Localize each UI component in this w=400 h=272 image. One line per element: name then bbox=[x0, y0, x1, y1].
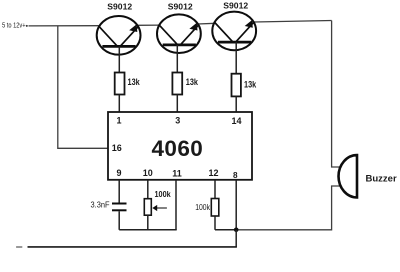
node minus terminal bbox=[16, 246, 22, 248]
pin 3 label bbox=[175, 116, 180, 126]
wire buzzer bottom to junction bbox=[236, 186, 341, 230]
IC U1 4060 body bbox=[108, 112, 252, 180]
resistor R4 100k bbox=[195, 199, 236, 230]
svg-text:13k: 13k bbox=[186, 77, 199, 87]
svg-text:12: 12 bbox=[209, 168, 219, 178]
svg-text:9: 9 bbox=[117, 168, 122, 178]
wire pin 12 down bbox=[214, 180, 216, 199]
resistor R3 13k bbox=[232, 74, 257, 112]
svg-text:Buzzer: Buzzer bbox=[366, 174, 397, 185]
pin 10 label bbox=[143, 168, 153, 178]
resistor R1 13k bbox=[115, 73, 141, 113]
pin 11 label bbox=[172, 169, 182, 179]
svg-text:S9012: S9012 bbox=[107, 2, 132, 12]
wire pin 8 down bbox=[235, 180, 237, 230]
svg-text:16: 16 bbox=[112, 143, 122, 153]
svg-text:8: 8 bbox=[233, 171, 238, 180]
svg-text:100k: 100k bbox=[155, 189, 171, 199]
transistor Q1 S9012 bbox=[97, 2, 141, 73]
transistor Q2 S9012 bbox=[157, 2, 201, 73]
svg-text:11: 11 bbox=[172, 169, 182, 179]
svg-text:4060: 4060 bbox=[152, 136, 204, 161]
transistor Q3 S9012 bbox=[212, 0, 256, 73]
resistor R2 13k bbox=[172, 73, 198, 113]
svg-text:S9012: S9012 bbox=[223, 0, 248, 10]
wire right vertical to buzzer top bbox=[332, 21, 342, 168]
capacitor C1 3.3nF bbox=[91, 200, 127, 230]
wire bottom rail (negative) bbox=[28, 246, 237, 248]
svg-text:100k: 100k bbox=[195, 202, 210, 212]
wire pin 9 down bbox=[118, 180, 120, 203]
pin 16 label bbox=[112, 143, 122, 153]
wire junction to bottom rail bbox=[235, 230, 237, 247]
svg-text:10: 10 bbox=[143, 168, 153, 178]
pin 12 label bbox=[209, 168, 219, 178]
wire RC net horizontal bbox=[119, 229, 177, 231]
wire pin 11 down bbox=[175, 180, 177, 230]
wire rail Q1-Q2 bbox=[137, 24, 160, 26]
pin 9 label bbox=[117, 168, 122, 178]
svg-text:3.3nF: 3.3nF bbox=[91, 200, 110, 210]
svg-text:13k: 13k bbox=[244, 79, 257, 89]
node V+ label "5 to 12v+" bbox=[2, 23, 28, 30]
svg-text:3: 3 bbox=[175, 116, 180, 126]
wire top rail left segment bbox=[29, 25, 99, 27]
wire left vertical to pin 16 bbox=[58, 26, 108, 149]
svg-text:S9012: S9012 bbox=[168, 2, 193, 12]
buzzer BZ1 bbox=[339, 155, 397, 197]
potentiometer VR1 100k bbox=[144, 189, 171, 230]
svg-text:1: 1 bbox=[117, 116, 122, 126]
pin 8 label bbox=[233, 171, 238, 180]
svg-text:14: 14 bbox=[232, 116, 242, 126]
wire rail Q3 to right corner bbox=[253, 21, 332, 23]
pin 1 label bbox=[117, 116, 122, 126]
svg-text:13k: 13k bbox=[128, 77, 141, 87]
svg-text:5 to 12v+: 5 to 12v+ bbox=[2, 23, 26, 30]
junction node pin8/R4/buzzer bbox=[234, 228, 239, 233]
pin 14 label bbox=[232, 116, 242, 126]
wire rail Q2-Q3 bbox=[198, 22, 216, 25]
wire pin 10 down bbox=[147, 180, 149, 199]
